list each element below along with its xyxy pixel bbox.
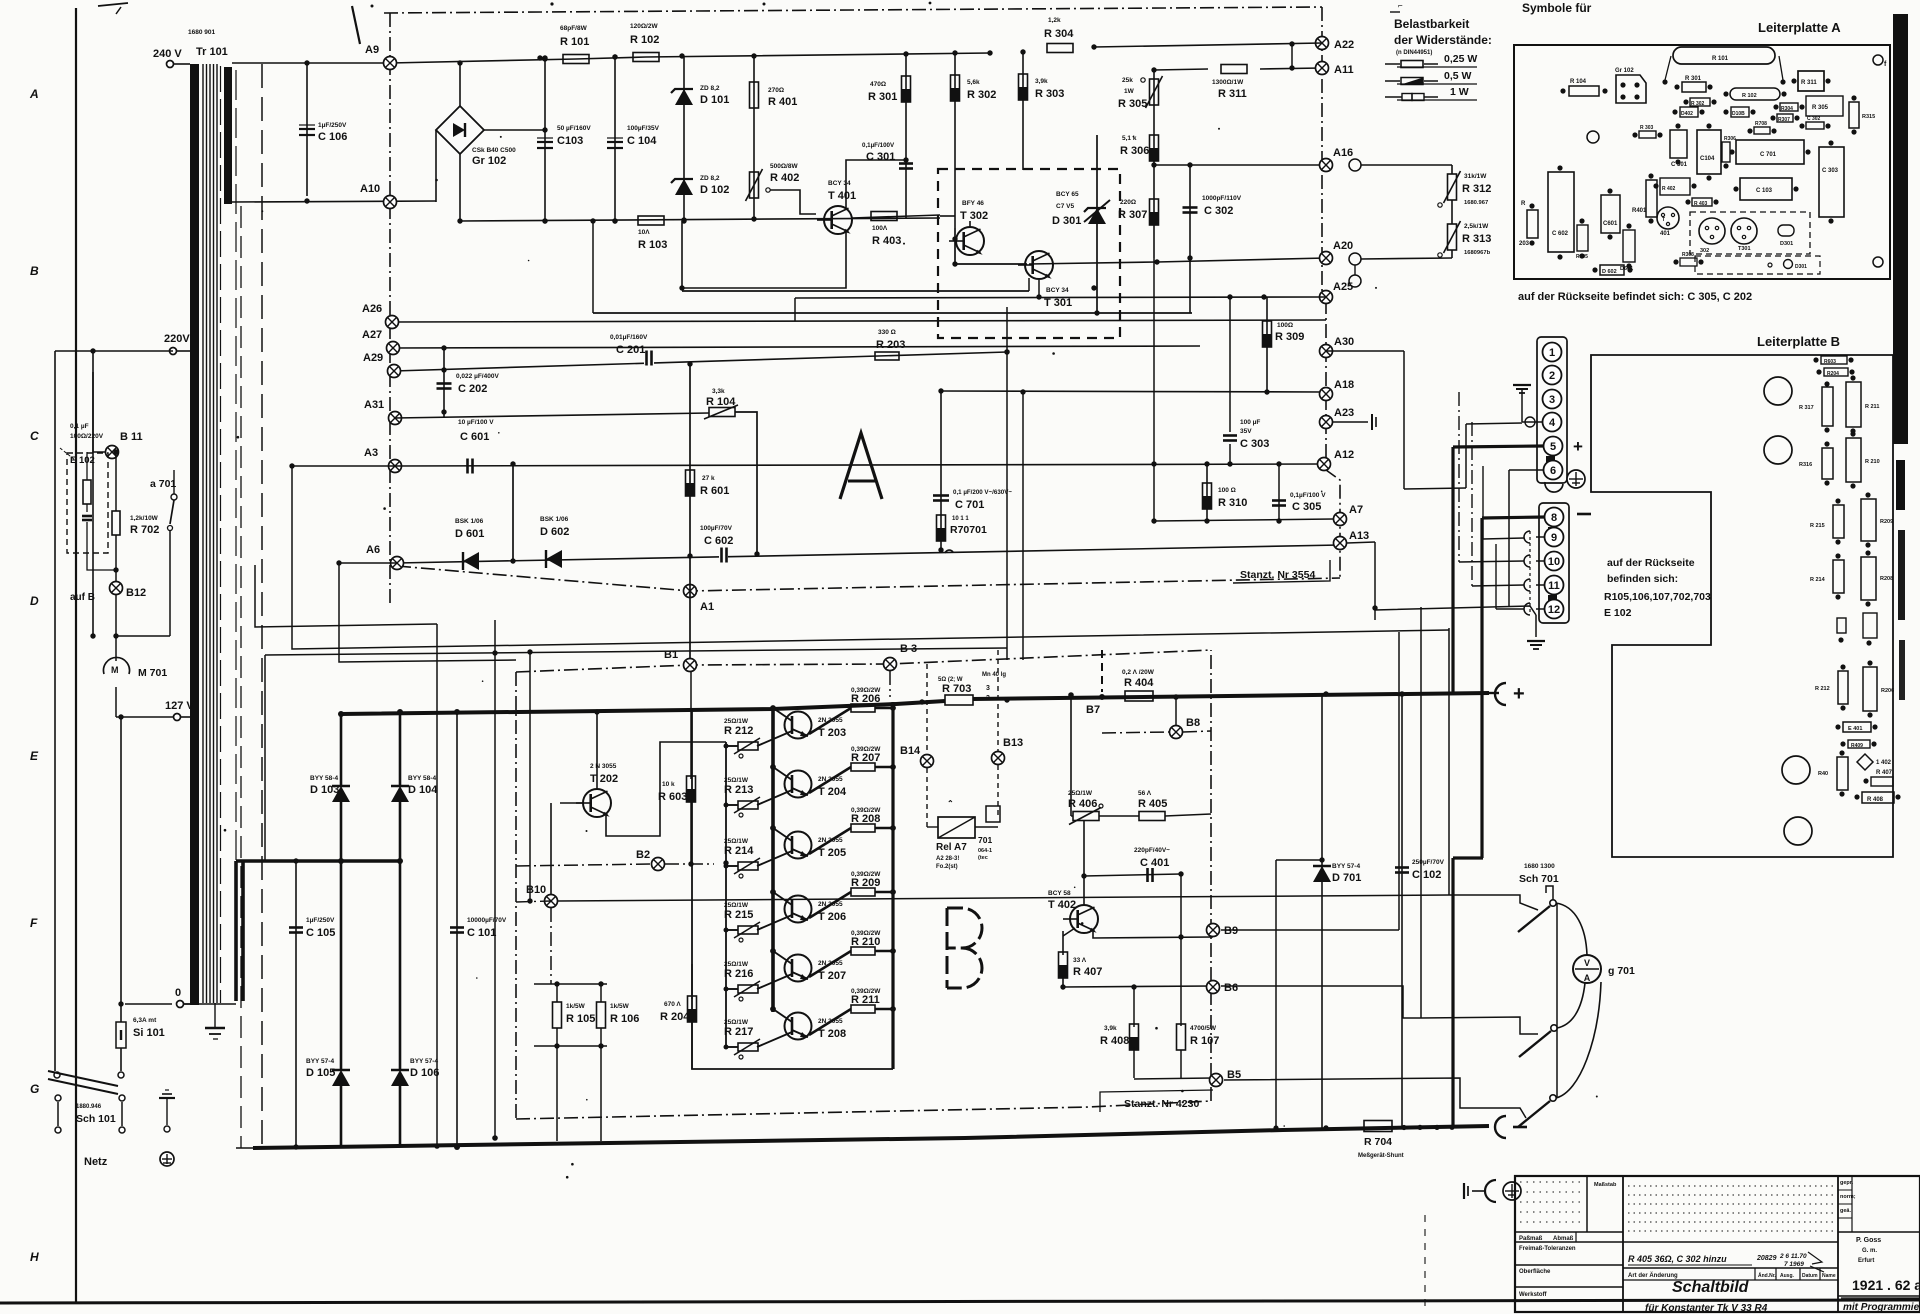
svg-text:R401: R401 [1632,208,1647,214]
row letters [29,87,39,1264]
resistor R401 [750,53,798,160]
wire A10 rail [232,201,436,202]
svg-text:A27: A27 [362,329,382,341]
svg-text:0,2 Λ /20W: 0,2 Λ /20W [1122,669,1155,676]
svg-text:CSk B40 C500: CSk B40 C500 [472,147,516,154]
transistor T 204 2N3055 [773,767,847,798]
A-board boundary bottom [397,566,1340,591]
svg-text:470Ω: 470Ω [870,81,886,88]
potentiometer R313 [1361,200,1491,259]
node B12 [70,582,146,604]
svg-text:R 207: R 207 [851,752,880,764]
wire band rail3 [339,563,516,662]
svg-text:+: + [1573,437,1583,456]
wire 240V-A9 rail [232,53,990,63]
wire T202 collector [594,709,599,790]
svg-text:T 203: T 203 [818,727,846,739]
transistor T 205 2N3055 [773,828,846,859]
svg-text:C 104: C 104 [627,135,657,147]
svg-text:R 403: R 403 [1694,201,1708,207]
svg-text:1680.967: 1680.967 [1464,200,1488,206]
svg-text:+: + [1513,683,1525,705]
capacitor C301 [862,142,913,218]
pcb A C302b [1799,116,1830,129]
zener D301 [1052,135,1110,313]
svg-text:6,3A mt: 6,3A mt [133,1017,157,1024]
svg-text:0,1 µF/200 V~/630V~: 0,1 µF/200 V~/630V~ [953,489,1012,496]
svg-text:R209: R209 [1880,519,1893,525]
svg-text:701: 701 [978,835,992,845]
svg-text:g 701: g 701 [1608,965,1635,977]
svg-text:geä.: geä. [1840,1208,1851,1214]
pcb B R211 [1846,375,1879,433]
svg-text:R208: R208 [1880,576,1893,582]
output earth terminal [1464,1180,1521,1202]
pcb B R409 [1840,740,1876,749]
bank box [692,709,893,1069]
wire A18 rail [941,389,1324,394]
wire A3-A12 rail [395,464,1324,466]
pcb B R40x [1818,750,1848,796]
resistor R701 [937,515,987,541]
svg-text:T 206: T 206 [818,911,846,923]
svg-text:R 305: R 305 [1812,105,1829,111]
svg-text:C 106: C 106 [318,131,347,143]
bank collector bus [770,705,776,1012]
pcb B R317 [1799,381,1833,432]
secondary bracket [184,858,403,1004]
transformer Tr101 secondary bar [224,67,232,204]
svg-text:064-1: 064-1 [978,848,992,854]
svg-text:3: 3 [986,695,990,702]
minus mark [1577,513,1591,516]
svg-text:R204: R204 [1827,371,1839,377]
svg-text:R 401: R 401 [768,96,797,108]
wire vertical x437 [434,624,440,1149]
pcb B R208 [1861,550,1893,606]
fuse Si101 [116,717,172,1071]
potentiometer R 213 [724,777,792,817]
pcb A Gr102 [1615,68,1646,103]
svg-text:R 101: R 101 [1712,56,1729,62]
potentiometer R406 [1068,790,1103,825]
wire T301 base rail [590,218,1192,315]
terminal 9 [1545,528,1564,547]
transistor T 206 2N3055 [773,892,846,923]
svg-text:E 102: E 102 [1604,607,1632,619]
transformer Tr101 core lines [203,64,221,1003]
svg-text:R 216: R 216 [724,968,753,980]
svg-text:1300Ω/1W: 1300Ω/1W [1212,79,1244,86]
svg-text:35V: 35V [1240,428,1252,435]
node A9 [365,44,397,70]
potentiometer R312 [1326,165,1491,207]
wire A30 rail [1326,351,1404,489]
pcb B outline [1591,355,1893,857]
svg-text:12: 12 [1548,604,1560,616]
pcb B R209 [1861,492,1893,547]
wire A7 rail [1151,258,1333,524]
pcb B R214 [1810,553,1844,599]
pcb A C104b [1697,123,1721,180]
svg-text:2: 2 [1549,370,1555,382]
svg-text:R 302: R 302 [1691,101,1705,107]
svg-text:R315: R315 [1862,114,1875,120]
svg-text:E: E [30,749,39,763]
wire A29 rail [394,352,1007,373]
wire band rail650 [265,648,1007,861]
svg-text:A11: A11 [1334,64,1354,76]
svg-text:1680 901: 1680 901 [188,29,215,36]
svg-text:Symbole für: Symbole für [1522,1,1592,15]
title block frame [1515,1176,1920,1312]
svg-text:3: 3 [986,685,990,692]
svg-text:127 V: 127 V [165,700,194,712]
pcb B hole4 [1784,817,1812,845]
pcb A R603b [1673,252,1703,266]
terminal 2 [1543,366,1562,385]
svg-text:240 V: 240 V [153,48,182,60]
pcb B I402 [1857,754,1893,776]
resistor R104 [704,388,760,557]
resistor R408 [1100,984,1139,1078]
svg-text:R303: R303 [1682,252,1694,258]
svg-text:Meßgerät-Shunt: Meßgerät-Shunt [1358,1153,1404,1159]
svg-text:3,9k: 3,9k [1035,78,1048,85]
svg-text:R 212: R 212 [724,725,753,737]
svg-text:BFY 46: BFY 46 [962,200,984,207]
pcb A R402b [1653,178,1696,195]
terminal 11 [1545,576,1564,605]
svg-text:10: 10 [1548,556,1560,568]
motor M701 [104,636,168,717]
transistor T401 BCY34 [817,180,856,234]
svg-text:A3: A3 [364,447,378,459]
svg-text:100µF/70V: 100µF/70V [700,525,733,532]
svg-text:R 301: R 301 [1685,76,1702,82]
svg-text:3: 3 [1549,394,1555,406]
svg-text:D 101: D 101 [700,94,729,106]
ground below strip [1527,615,1545,649]
potentiometer R305 [1118,67,1163,133]
pcb A dashed box T30x [1690,212,1810,254]
svg-text:1680967b: 1680967b [1464,250,1491,256]
svg-text:auf der Rückseite befindet sic: auf der Rückseite befindet sich: C 305, … [1518,291,1752,303]
svg-text:Leiterplatte B: Leiterplatte B [1757,334,1840,349]
switch a701 [113,470,177,639]
svg-text:10Λ: 10Λ [638,229,650,236]
wire A20 rail [1029,258,1326,265]
node A27 [362,329,400,355]
ground above terminal4 [1513,385,1542,427]
earth mains [160,1152,174,1166]
svg-text:ZD 8,2: ZD 8,2 [700,85,720,92]
svg-text:A31: A31 [364,399,384,411]
tap 220V [164,333,190,355]
svg-text:100Λ: 100Λ [872,225,888,232]
node A16 [1320,147,1362,172]
svg-text:V: V [1584,958,1590,968]
svg-text:R 313: R 313 [1462,233,1491,245]
svg-text:203: 203 [1519,241,1530,247]
svg-text:BYY 57-4: BYY 57-4 [1332,863,1360,870]
wire T401 collector [846,160,906,208]
A-board boundary right [1322,7,1340,578]
svg-text:1921 . 62 a: 1921 . 62 a [1852,1277,1920,1293]
svg-text:100µF/35V: 100µF/35V [627,125,660,132]
svg-text:R304: R304 [1781,106,1793,112]
capacitor C106 [299,60,347,203]
svg-text:4: 4 [1549,417,1556,429]
scan pen marks top [98,2,931,44]
pcb A R401b [1632,173,1657,223]
svg-text:25Ω/1W: 25Ω/1W [724,961,749,968]
svg-text:⌐: ⌐ [1398,1,1403,10]
svg-text:T 207: T 207 [818,970,846,982]
svg-text:R 305: R 305 [1118,98,1147,110]
capacitor C303 [1223,297,1269,467]
svg-text:C 305: C 305 [1292,501,1321,513]
svg-text:A10: A10 [360,183,380,195]
hop arcs 9-12 [1524,531,1545,615]
pcb B R316 [1799,441,1833,485]
svg-text:B12: B12 [126,587,146,599]
svg-text:R 103: R 103 [638,239,667,251]
svg-text:R40: R40 [1818,771,1828,777]
pcb B small pair [1837,613,1877,646]
capacitor C302 [1183,165,1242,313]
svg-text:1k/5W: 1k/5W [566,1003,586,1010]
svg-text:ZD 8,2: ZD 8,2 [700,175,720,182]
svg-text:100 µF: 100 µF [1240,419,1260,426]
wire 220V branch [93,351,112,420]
resistor R601 [686,361,730,558]
bank base bus [723,742,728,1050]
pcb A outline [1514,45,1890,279]
svg-text:D 602: D 602 [540,526,569,538]
capacitor C305 [1272,461,1326,523]
svg-text:R 407: R 407 [1073,966,1102,978]
potentiometer R402 [746,160,800,222]
wire T402 emitter [1093,931,1213,938]
svg-text:F: F [30,916,38,930]
svg-text:R105,106,107,702,703: R105,106,107,702,703 [1604,591,1711,603]
svg-text:R 406: R 406 [1068,798,1097,810]
pcb A sockets [1695,256,1820,274]
svg-text:Gr 102: Gr 102 [472,155,506,167]
svg-text:R 301: R 301 [868,91,897,103]
node B11 [93,372,143,459]
wire sch feed3 [1221,632,1526,1118]
wire terminal8 feed [1453,517,1545,1127]
node A30 [1320,336,1355,358]
svg-text:Belastbarkeit: Belastbarkeit [1394,17,1469,31]
resistor R 207 [809,746,893,793]
svg-text:A25: A25 [1333,281,1353,293]
svg-text:gepr.: gepr. [1840,1180,1854,1186]
wire terminal4 feed [1404,423,1522,489]
svg-text:M: M [111,665,119,675]
big letter B [947,908,982,988]
node A7 [1334,504,1364,526]
svg-text:A: A [29,87,39,101]
transistor T202 2N3055 [576,763,618,817]
svg-text:5Ω (2; W: 5Ω (2; W [938,677,963,683]
svg-text:C601: C601 [1603,221,1618,227]
svg-text:auf B: auf B [70,592,95,603]
svg-text:1µF/250V: 1µF/250V [318,122,347,129]
svg-text:R 303: R 303 [1035,88,1064,100]
svg-text:Tr 101: Tr 101 [196,46,228,58]
svg-text:R 203: R 203 [876,339,905,351]
svg-text:D301: D301 [1780,241,1793,247]
svg-text:R 402: R 402 [1662,186,1676,192]
resistor R403 [852,212,940,248]
svg-text:1µF/250V: 1µF/250V [306,917,335,924]
svg-text:D301: D301 [1795,264,1807,270]
svg-text:10000µF/70V: 10000µF/70V [467,917,507,924]
svg-text:R 204: R 204 [660,1011,690,1023]
svg-text:C 303: C 303 [1240,438,1269,450]
pcb A R306b [1722,136,1736,169]
resistor R704 [1273,1121,1454,1160]
svg-text:R 306: R 306 [1120,145,1149,157]
svg-text:B7: B7 [1086,704,1100,716]
pcb A R315 [1849,95,1875,134]
resistor R107 [1177,874,1220,1078]
svg-text:0: 0 [175,987,181,999]
capacitor C105 [289,858,335,1149]
svg-text:mit Programmierl: mit Programmierl [1843,1302,1920,1313]
svg-text:BCY 34: BCY 34 [1046,287,1069,294]
pcb A R301 [1674,76,1712,92]
terminal 12 [1545,600,1564,619]
svg-text:1680 1300: 1680 1300 [1524,863,1555,870]
pcb A R303b [1632,125,1662,138]
pcb A T401b [1657,207,1679,237]
pcb B R407 [1863,777,1893,786]
svg-text:R 214: R 214 [724,845,754,857]
svg-text:R 407: R 407 [1876,770,1893,776]
svg-text:R 104: R 104 [1570,79,1587,85]
svg-text:A2 28-3!: A2 28-3! [936,856,959,862]
svg-text:B2: B2 [636,849,650,861]
pcb A R305 [1806,96,1843,116]
node B5 [1210,1069,1242,1087]
svg-text:T: T [1662,217,1665,223]
svg-text:220Ω: 220Ω [1120,199,1136,206]
resistor R303 [1019,49,1065,170]
svg-text:1W: 1W [1124,88,1135,95]
svg-text:Paßmaß: Paßmaß [1519,1236,1543,1242]
tap 0 [175,987,190,1008]
svg-text:A13: A13 [1349,530,1369,542]
big letter A [840,433,882,499]
pcb A C602b [1548,165,1574,259]
pcb A C701b [1729,140,1810,164]
wire A3 left stub [289,463,395,468]
svg-text:T 402: T 402 [1048,899,1076,911]
svg-text:B 3: B 3 [900,643,917,655]
potentiometer R 215 [724,902,792,942]
svg-text:302: 302 [1700,248,1709,254]
resistor R301 [868,51,911,162]
svg-text:B 11: B 11 [120,431,143,443]
zener D102 [671,170,729,224]
svg-text:B1: B1 [664,649,678,661]
svg-text:R 206: R 206 [851,693,880,705]
svg-text:R206: R206 [1881,688,1894,694]
svg-text:Sch 101: Sch 101 [76,1113,116,1125]
node B2 [516,849,714,871]
svg-text:B14: B14 [900,745,921,757]
wire vertical x1007 [1004,307,1009,660]
svg-text:R 404: R 404 [1124,677,1154,689]
svg-text:C 302: C 302 [1204,205,1233,217]
svg-text:1000pF/110V: 1000pF/110V [1202,195,1242,202]
svg-text:R 403: R 403 [872,235,901,247]
svg-text:A12: A12 [1334,449,1354,461]
svg-text:Gr 102: Gr 102 [1615,68,1634,74]
node A1 [684,556,715,665]
pcb A R203b [1519,201,1538,247]
resistor R310 [1203,461,1248,523]
svg-text:BYY 58-4: BYY 58-4 [310,775,338,782]
svg-text:120Ω/2W: 120Ω/2W [630,23,658,30]
svg-text:R 307: R 307 [1118,209,1147,221]
svg-text:A9: A9 [365,44,379,56]
wire T202 emitter [606,742,726,836]
svg-text:R316: R316 [1799,462,1812,468]
svg-text:T 202: T 202 [590,773,618,785]
svg-text:R 704: R 704 [1364,1136,1392,1148]
wires into strip from left [1459,392,1524,609]
node B3 [884,643,918,671]
diode D701 [1276,694,1361,1129]
svg-text:R 405 36Ω, C 302 hinzu: R 405 36Ω, C 302 hinzu [1628,1254,1727,1264]
svg-text:Schaltbild: Schaltbild [1672,1279,1750,1296]
svg-text:BCY 58: BCY 58 [1048,890,1071,897]
pcb A C601c [1576,218,1588,260]
resistor R311 [1154,65,1322,101]
svg-text:D 301: D 301 [1052,215,1081,227]
wire motor to 127V [116,714,173,719]
svg-text:R 211: R 211 [851,994,880,1006]
svg-text:Leiterplatte A: Leiterplatte A [1758,20,1841,35]
svg-text:27 k: 27 k [702,475,715,482]
svg-text:M 701: M 701 [138,667,167,679]
svg-text:R603: R603 [1824,359,1836,365]
svg-text:1k/5W: 1k/5W [610,1003,630,1010]
capacitor C101 [450,709,507,1150]
svg-text:BCY 65: BCY 65 [1056,191,1079,198]
svg-text:401: 401 [1660,231,1671,237]
node A20 [1320,240,1362,287]
drawing border bottom [0,1300,1920,1303]
resistor R407 [1059,928,1103,987]
transistor T 207 2N3055 [773,951,846,982]
svg-text:T 205: T 205 [818,847,846,859]
resistor R304 [987,17,1096,56]
node A23 [1320,407,1377,430]
svg-text:R70701: R70701 [950,524,987,536]
svg-text:C103: C103 [557,135,583,147]
potentiometer R 216 [724,961,792,1001]
svg-text:C 701: C 701 [955,499,984,511]
resistor R 209 [809,871,893,918]
svg-text:R 312: R 312 [1462,183,1491,195]
svg-text:Mn 40 lg: Mn 40 lg [982,672,1006,678]
